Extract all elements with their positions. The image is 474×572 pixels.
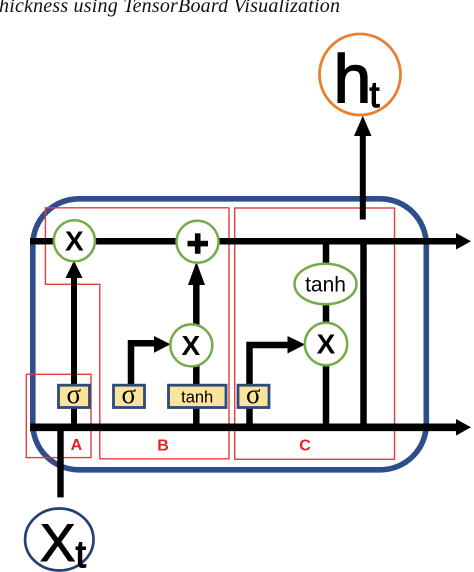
svg-text:σ: σ [67, 379, 82, 409]
svg-text:tanh: tanh [305, 274, 346, 297]
svg-text:X: X [65, 226, 84, 257]
svg-text:σ: σ [122, 379, 137, 409]
svg-text:σ: σ [246, 379, 261, 409]
svg-text:t: t [370, 74, 380, 115]
svg-text:X: X [317, 329, 336, 360]
svg-text:B: B [157, 438, 169, 455]
svg-text:X: X [181, 330, 200, 361]
svg-text:X: X [40, 514, 75, 572]
svg-text:C: C [299, 438, 311, 455]
svg-text:A: A [71, 437, 83, 454]
svg-text:h: h [334, 41, 372, 117]
svg-text:t: t [76, 534, 87, 572]
svg-text:tanh: tanh [181, 389, 213, 407]
